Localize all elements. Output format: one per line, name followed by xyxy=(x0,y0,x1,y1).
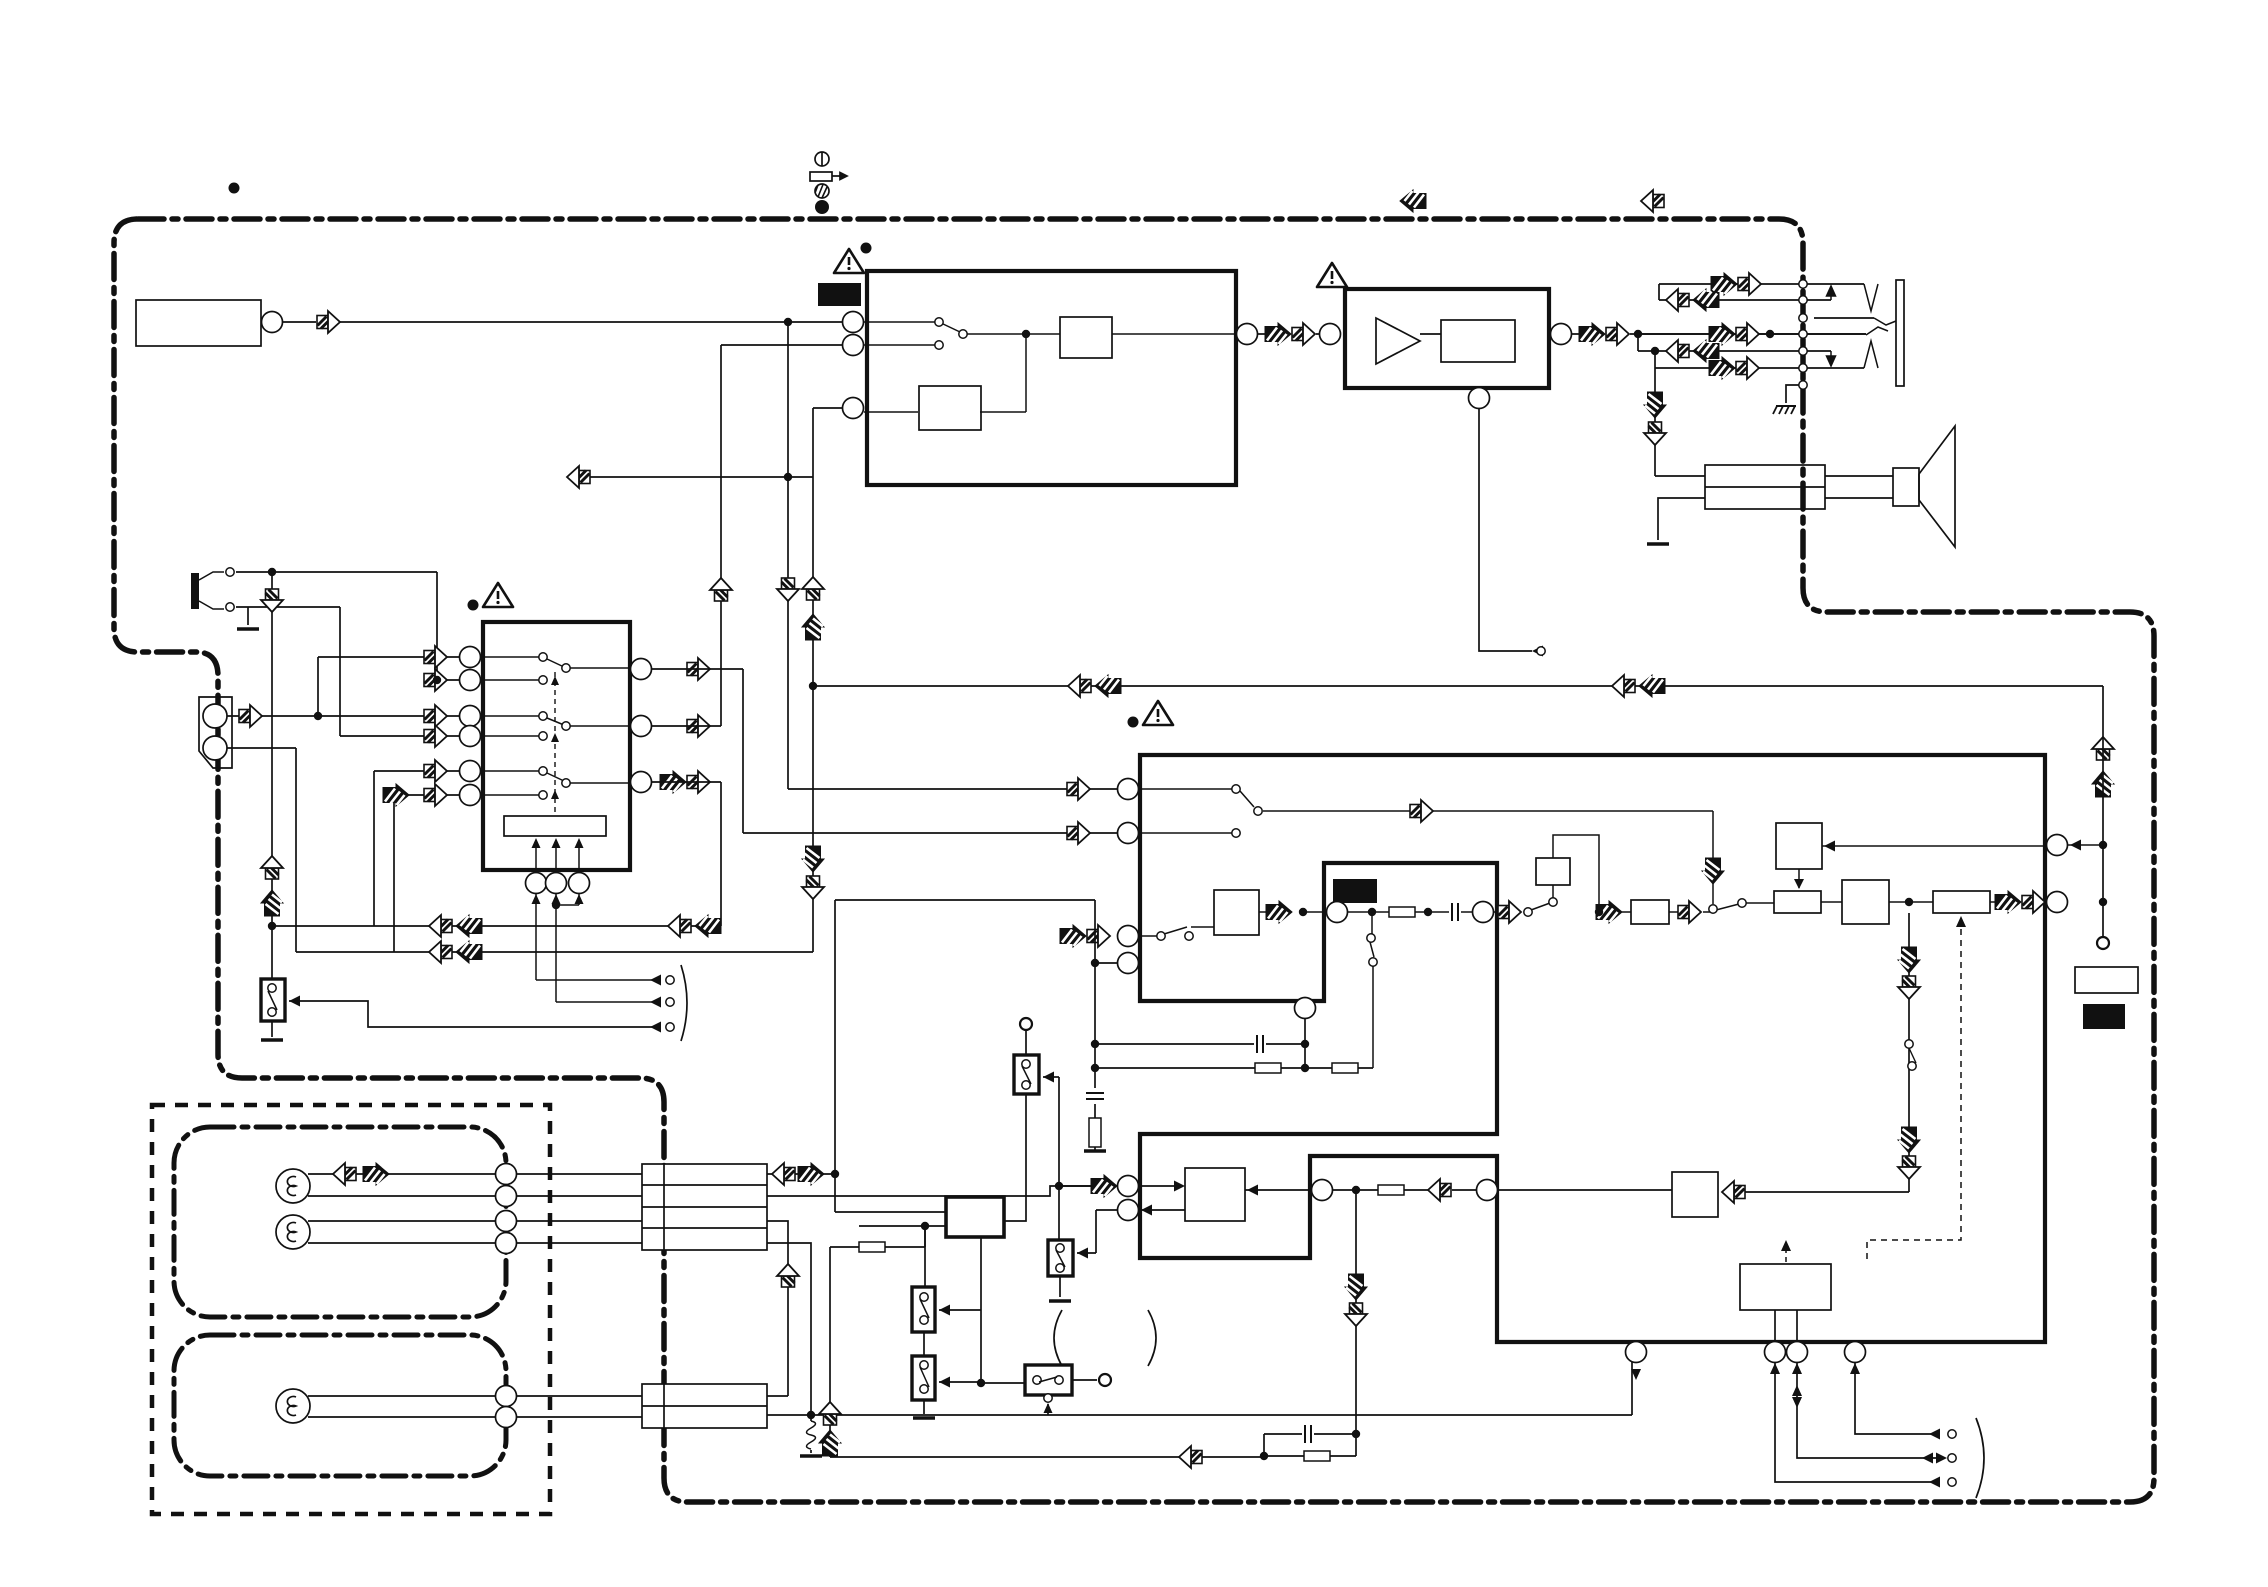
SW4-SW5 link xyxy=(923,1332,925,1414)
circles lower-left block xyxy=(1118,1176,1139,1197)
wire jack sleeve xyxy=(236,606,340,608)
LL box wires xyxy=(1139,1186,1185,1210)
wire tap y477 xyxy=(567,476,813,478)
amp bottom circle xyxy=(1469,388,1490,409)
wire long y686 xyxy=(813,685,2103,687)
chain circles xyxy=(1327,902,1348,923)
switch SW4 xyxy=(912,1287,935,1332)
cap bottom RC xyxy=(1305,1425,1311,1443)
arrow left into RB box xyxy=(1722,1181,1745,1203)
warning triangle W2 xyxy=(1317,263,1347,287)
arrows left pair on y926 xyxy=(429,915,452,937)
wire y1457 xyxy=(830,1456,1264,1458)
amp input circle xyxy=(1320,324,1341,345)
terminal arrowheads right xyxy=(1922,1429,1947,1488)
control box legs xyxy=(1775,1310,1797,1342)
cap/res network under U5 xyxy=(1095,900,1373,1151)
small arrows at jack xyxy=(1827,286,1836,300)
arrows left pair on y952 xyxy=(429,941,452,963)
vertical x1059 xyxy=(1058,1077,1060,1240)
SW1 ground xyxy=(271,1021,273,1037)
jack plate right xyxy=(1896,280,1904,386)
service terminals left-bottom xyxy=(289,1001,652,1027)
headphone jack plate (left) xyxy=(191,573,199,609)
arrows U2 to amp xyxy=(1265,323,1291,345)
vertical x1909 xyxy=(1908,913,1910,1192)
arrows down x1655 xyxy=(1644,392,1666,418)
amp output circle xyxy=(1551,324,1572,345)
control box U6 (bottom right) xyxy=(1740,1264,1831,1310)
arrowheads into switches xyxy=(939,1072,1258,1388)
SW2 internals xyxy=(1022,1060,1030,1068)
SW5 internals xyxy=(920,1361,928,1369)
selector contact rings xyxy=(539,653,547,661)
arrow left y1457 xyxy=(1179,1446,1202,1468)
border arrows top xyxy=(1400,190,1426,212)
U5 chain y912 xyxy=(1259,911,1473,913)
rings U5 xyxy=(1232,785,1240,793)
main chassis dash-dot border xyxy=(114,219,2154,1502)
SW6 right xyxy=(1072,1379,1097,1381)
U5 box d xyxy=(1933,891,1990,913)
SW3 internals xyxy=(1056,1244,1064,1252)
selector input circles xyxy=(460,647,481,668)
U5 box f xyxy=(1631,900,1669,924)
U4 system control strip xyxy=(504,816,606,836)
arrow up x834 xyxy=(819,1402,841,1425)
SW2 top bottom xyxy=(1004,1031,1026,1221)
cassette mech dash-dot box 2 xyxy=(174,1335,506,1476)
chain capacitor xyxy=(1452,903,1458,921)
wire y926 bus xyxy=(272,925,721,927)
wire x296 vertical xyxy=(295,748,297,952)
wire selector row2 in xyxy=(437,679,459,681)
dashed stub above control box xyxy=(1785,1246,1787,1262)
circle on U5 bottom edge left xyxy=(1295,998,1316,1019)
U3 amp triangle xyxy=(1376,318,1420,364)
wire circle2 out xyxy=(1077,1210,1117,1253)
wire x813 to U2 pin3 xyxy=(813,407,843,409)
K1 feeds xyxy=(835,900,1095,1212)
U1 output circle xyxy=(262,312,283,333)
wire selector row3 out xyxy=(652,781,721,783)
cassette mech dash-dot box 1 xyxy=(174,1127,506,1317)
switch SW3 xyxy=(1048,1240,1073,1276)
U2 net to box a xyxy=(967,333,1236,335)
U3 inner box xyxy=(1441,320,1515,362)
warning triangle W1 xyxy=(834,249,864,273)
resistor LL chain xyxy=(1378,1185,1404,1195)
vertical resistor xyxy=(1089,1118,1101,1147)
switch SW1 (jack detect) xyxy=(261,979,285,1021)
wire selector row4 in xyxy=(340,735,459,737)
registration dot top-left xyxy=(229,183,240,194)
wires to ribbon J1 xyxy=(517,1174,642,1243)
wire into SW2 xyxy=(1043,1076,1059,1078)
lamp wires box1 xyxy=(308,1174,496,1243)
arrow left LL chain xyxy=(1428,1179,1451,1201)
U5 row3 into box g xyxy=(1139,927,1214,936)
arrow left on y477 xyxy=(567,466,590,488)
junction dots top-left xyxy=(784,318,792,326)
switch SW6 (horizontal) xyxy=(1025,1365,1072,1395)
wire x340 to row4 xyxy=(339,607,341,736)
inductor stub xyxy=(810,1415,812,1453)
legend: arrow box xyxy=(810,172,832,181)
selector input arrows xyxy=(424,646,447,668)
dashed control line xyxy=(1867,918,1961,1262)
block U2 (top-middle main) xyxy=(867,271,1236,485)
ribbon connector J2 xyxy=(642,1384,767,1428)
arrow U1 out xyxy=(317,311,340,333)
arrowhead box a down xyxy=(1794,879,1804,889)
selector dashed control line xyxy=(554,672,556,812)
wires amp row xyxy=(1258,334,1866,651)
wire selector row1 in xyxy=(318,656,459,658)
SW2 top terminal xyxy=(1020,1018,1032,1030)
SW4 internals xyxy=(920,1293,928,1301)
RC pair bottom xyxy=(1264,1434,1356,1456)
ribbon connector J1 xyxy=(642,1164,767,1250)
mechanism parens xyxy=(1054,1310,1062,1366)
wire x721 to U2 pin2 xyxy=(721,344,843,346)
arrowhead into box a xyxy=(1824,841,1835,852)
lamp symbols xyxy=(276,1169,310,1203)
wire jack ground xyxy=(247,607,249,625)
relay box K1 xyxy=(946,1197,1004,1237)
U5 box e xyxy=(1536,858,1570,885)
ground under network xyxy=(1084,1150,1106,1152)
vertical x1356 xyxy=(1355,1190,1357,1434)
arrows jack rows xyxy=(1711,273,1737,295)
dots lower area xyxy=(1055,1182,1063,1190)
selector bottom up arrowheads xyxy=(532,894,584,904)
jack contacts (left) xyxy=(199,572,224,609)
arrow down x272 below jack xyxy=(261,589,283,612)
arrows amp out xyxy=(1579,323,1605,345)
arrows into U5 inputs xyxy=(1067,778,1090,800)
motor down arrowhead xyxy=(1631,1369,1641,1380)
label plate (right) xyxy=(2083,1004,2125,1029)
wire connector circle2 xyxy=(227,747,296,749)
jack contacts right xyxy=(1864,284,1896,368)
jack wires rows xyxy=(1659,284,1864,300)
arrows lamp wire xyxy=(333,1163,356,1185)
jack contact rings (left) xyxy=(226,568,234,576)
arrows up x2103 xyxy=(2092,737,2114,760)
wire selector row6 in xyxy=(394,794,459,796)
wire y952 bus xyxy=(296,951,813,953)
wire x437 to row2 xyxy=(436,572,438,680)
SW6 sense ring arrowhead xyxy=(1044,1394,1052,1402)
wire x813 vertical xyxy=(812,408,814,952)
cassette compartment dashed rect xyxy=(152,1105,550,1514)
mech switch under chain x1372 xyxy=(1370,912,1374,1068)
speaker driver box xyxy=(1893,468,1919,506)
selector bottom circles xyxy=(526,873,547,894)
legend: solid dot xyxy=(815,200,829,214)
wire x318 row1 link xyxy=(317,657,319,716)
bracket arc xyxy=(681,965,687,1041)
SW1 internals xyxy=(268,984,276,992)
up arrowheads under circles xyxy=(1770,1363,1860,1374)
caps and resistors in network xyxy=(1257,1035,1263,1053)
ring end x2103 xyxy=(2097,937,2109,949)
wire x788 to U5 pin1 xyxy=(788,788,1118,790)
arrows pair on y686 wire xyxy=(1068,675,1091,697)
block U1 (top-left small) xyxy=(136,300,261,346)
wire x334 drop xyxy=(373,771,375,926)
arrowhead into circle right xyxy=(2070,840,2081,851)
ribbon J2 row1 link xyxy=(767,1395,788,1397)
SW6 internals xyxy=(1033,1376,1041,1384)
VR outline rect xyxy=(2075,967,2138,993)
selector output arrows xyxy=(687,658,710,680)
label plate (inner block) xyxy=(1333,879,1377,903)
left connector shell xyxy=(199,697,232,768)
control verticals to terminals xyxy=(1775,1362,1940,1482)
wire U1 out xyxy=(283,321,316,323)
wire x2103 down xyxy=(2102,686,2104,937)
left connector circles xyxy=(203,704,227,728)
wire feed circle1 xyxy=(1059,1185,1094,1187)
label plate (top block) xyxy=(818,283,861,306)
x925 drop to SW4 xyxy=(924,1226,926,1287)
U5 box a feed xyxy=(1799,845,2103,888)
terminal arrowheads t1 t2 t3 xyxy=(289,975,661,1033)
U5 box d to circle xyxy=(2045,901,2047,903)
feedback arrowhead and ring xyxy=(1532,646,1543,657)
circles LL chain xyxy=(1312,1180,1333,1201)
switch SW5 xyxy=(912,1356,935,1400)
U5 row1 switch xyxy=(1139,789,1254,833)
ribbon J1 exits xyxy=(767,1174,1094,1415)
ribbon row1 arrows xyxy=(772,1163,795,1185)
switch on x1909 xyxy=(1905,1040,1913,1048)
speaker cone xyxy=(1919,426,1955,547)
motor circle U5 bottom xyxy=(1626,1342,1647,1363)
vertical cap xyxy=(1086,1093,1104,1099)
wire connector circle1 to selector xyxy=(227,715,459,717)
switch SW2 xyxy=(1014,1055,1039,1094)
output transformer xyxy=(1705,465,1825,509)
dots jack area xyxy=(1634,330,1642,338)
jack terminal circles on border xyxy=(1799,280,1807,288)
U2 switch wires xyxy=(864,322,960,345)
U5 mute line y811 xyxy=(1263,811,1713,904)
double arrowhead x1797 xyxy=(1792,1385,1802,1408)
transformer wires xyxy=(1655,476,1893,540)
chain resistor xyxy=(1389,907,1415,917)
wire selector row5 in xyxy=(374,770,459,772)
U5 box c xyxy=(1842,880,1889,924)
circles U5 bottom right xyxy=(1765,1342,1786,1363)
legend: hatched circle xyxy=(815,184,829,198)
block U5 (main right block with notches) xyxy=(1140,755,2045,1342)
wire y1415 motor xyxy=(767,1362,1632,1415)
wire jack detect vertical x272 xyxy=(271,572,273,979)
wire selector row1 out xyxy=(652,669,1118,833)
K1 bottom to SW4 SW5 xyxy=(939,1237,1025,1383)
arrow bold into circle1 xyxy=(1091,1175,1117,1197)
block U4 (input selector) xyxy=(483,622,630,870)
arrow down x1356 xyxy=(1345,1274,1367,1300)
circles on mech box edge xyxy=(496,1164,517,1185)
block U3 (power amp) xyxy=(1345,289,1549,388)
bracket right xyxy=(1976,1418,1984,1498)
U5 box g xyxy=(1214,890,1259,935)
wire vertical x788 xyxy=(787,322,789,789)
U2 inner box b xyxy=(919,386,981,430)
arrows column x721 x788 x813 xyxy=(710,578,732,601)
arrow down into chain x1713 xyxy=(1702,858,1724,884)
U5 box b xyxy=(1774,891,1821,913)
dots U5 xyxy=(1299,908,1307,916)
wire x721 upper xyxy=(720,345,722,726)
U5 right circles xyxy=(2047,835,2068,856)
U2 lower path xyxy=(864,334,1026,412)
U2 inner box a xyxy=(1060,317,1112,358)
U2 output circle xyxy=(1237,324,1258,345)
arrow up x785 xyxy=(777,1264,799,1287)
legend: connector circle xyxy=(815,152,829,166)
dots bottom xyxy=(807,1411,815,1419)
warning triangle W3 xyxy=(483,583,513,607)
bottom middle box xyxy=(1672,1172,1718,1217)
SW6 sense stub xyxy=(1047,1404,1049,1415)
dots network xyxy=(1091,959,1099,967)
resistor K1 feed xyxy=(859,1242,885,1252)
lamp wires box2 xyxy=(308,1396,496,1417)
lower-left block box xyxy=(1185,1168,1245,1221)
selector internal wires xyxy=(481,657,652,1002)
wires to ribbon J2 xyxy=(517,1396,642,1417)
wire x721 lower xyxy=(720,782,722,926)
res bottom RC xyxy=(1304,1451,1330,1461)
warning triangle W4 xyxy=(1143,701,1173,725)
selector row6 extra bold arrow xyxy=(383,784,409,806)
inductor coil xyxy=(807,1421,816,1449)
arrows down x1909 xyxy=(1898,947,1920,973)
wire selector row2 out xyxy=(652,725,721,727)
selector output circles xyxy=(631,659,652,680)
ground jack-left xyxy=(237,628,259,630)
arrows in U5 chain xyxy=(1410,800,1433,822)
wire jack tip xyxy=(236,571,437,573)
arrows down x813 lower xyxy=(802,846,824,872)
wire x358 drop xyxy=(393,795,395,952)
selector strip input arrowheads xyxy=(532,838,584,848)
U2 input circles xyxy=(843,312,864,333)
hatched ground at jack xyxy=(1773,406,1796,414)
U5 box a xyxy=(1776,823,1822,869)
arrows up x272 above dot xyxy=(261,856,283,879)
SW3 ground xyxy=(1059,1276,1061,1297)
transformer ground xyxy=(1647,543,1669,545)
wire U1 to U2 pin1 xyxy=(340,321,843,323)
U5 input circles xyxy=(1118,779,1139,800)
arrow connector out xyxy=(239,705,262,727)
